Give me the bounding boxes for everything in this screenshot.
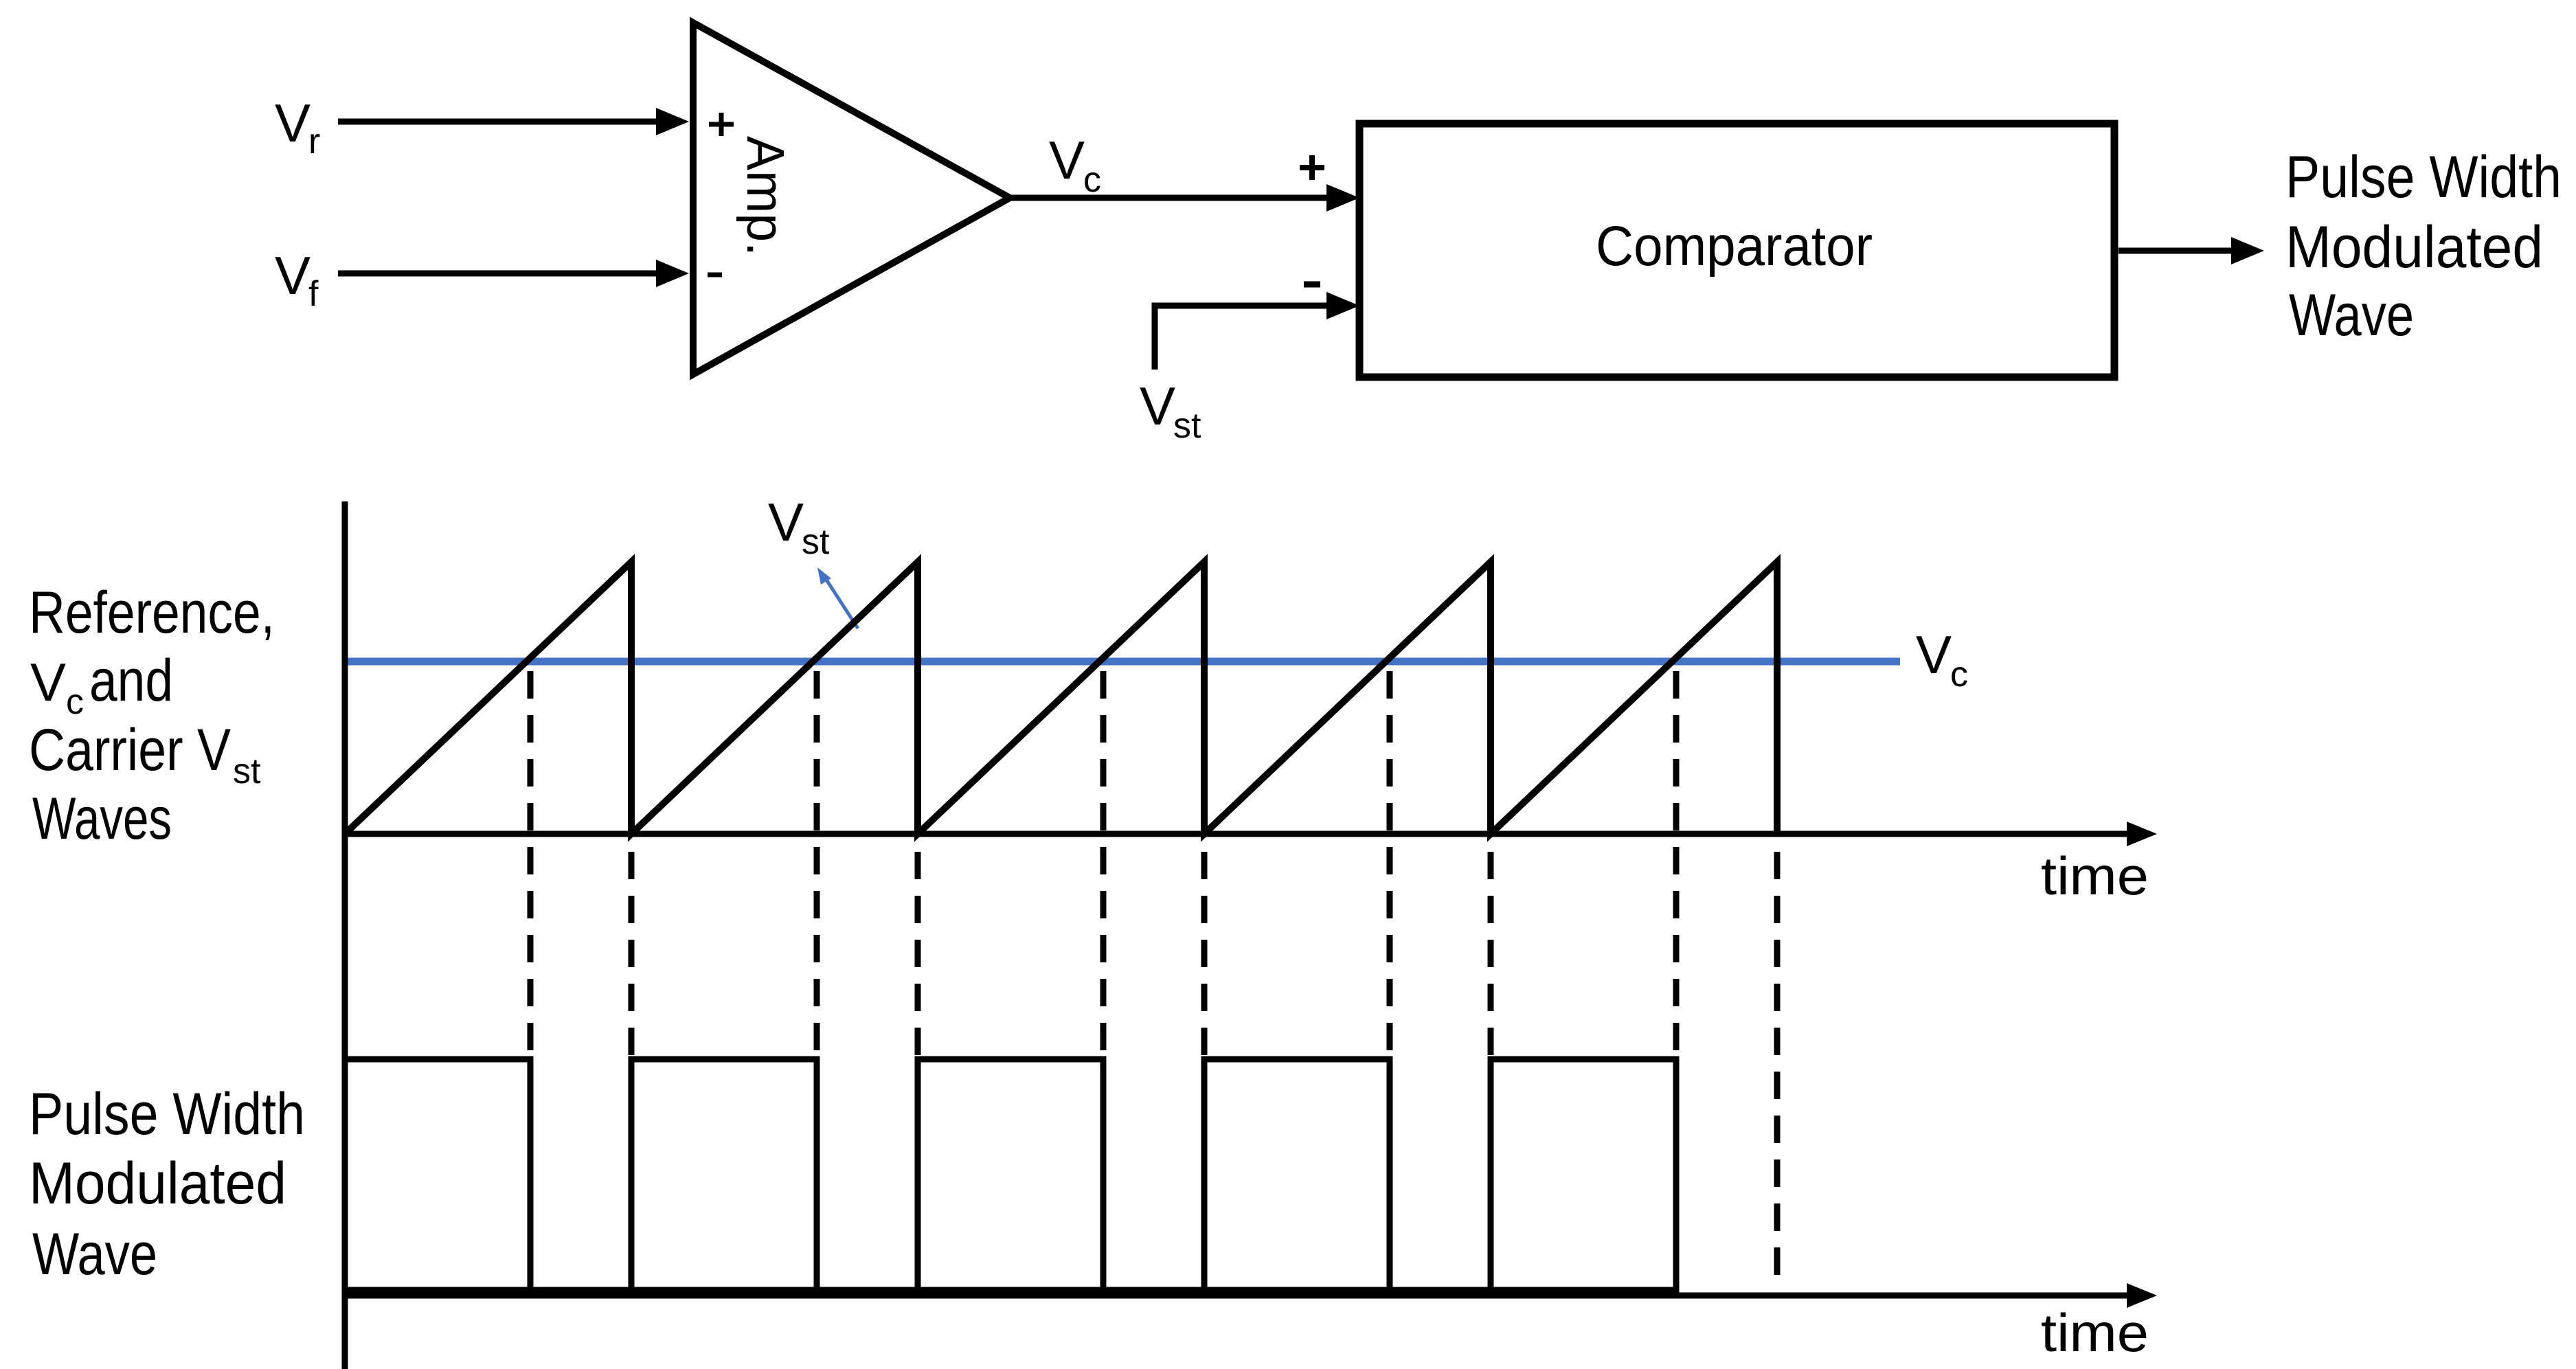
svg-text:Modulated: Modulated	[29, 1151, 286, 1217]
svg-text:Reference,: Reference,	[29, 580, 275, 646]
svg-text:Modulated: Modulated	[2285, 214, 2543, 280]
dashed reset line 3	[1201, 834, 1208, 1059]
PWM pulse 5	[1491, 1059, 1676, 1296]
svg-text:Vc: Vc	[1916, 624, 1968, 694]
svg-text:Waves: Waves	[32, 786, 172, 852]
svg-text:Vcand: Vcand	[30, 648, 173, 722]
svg-text:time: time	[2041, 846, 2149, 906]
svg-text:Pulse Width: Pulse Width	[29, 1081, 305, 1147]
PWM pulse 4	[1204, 1059, 1390, 1296]
dashed reset line 4	[1488, 834, 1494, 1059]
graph1 axis label Reference, Vc and Carrier Vst Waves	[29, 580, 275, 852]
pin - of comparator	[1304, 282, 1320, 288]
node Vc level line (blue)	[345, 658, 1900, 666]
wire Vst pointer arrow (blue)	[817, 567, 858, 629]
wire Vr input arrow	[338, 108, 689, 135]
svg-text:Vf: Vf	[275, 245, 319, 314]
dashed reset line 1	[629, 834, 635, 1059]
svg-text:Wave: Wave	[32, 1221, 157, 1287]
svg-text:time: time	[2041, 1302, 2149, 1363]
svg-text:Vst: Vst	[1140, 376, 1201, 446]
svg-text:Carrier Vst: Carrier Vst	[29, 717, 261, 791]
wire Vf input arrow	[338, 260, 689, 287]
PWM pulse 3	[918, 1059, 1103, 1296]
pin + of comparator	[1300, 155, 1324, 180]
output label Pulse Width Modulated Wave	[2285, 144, 2562, 348]
svg-text:Vc: Vc	[1049, 130, 1101, 200]
dashed reset line 2	[915, 834, 921, 1059]
graph1 y-axis	[342, 501, 348, 1369]
graph2 x-axis	[342, 1283, 2157, 1308]
svg-text:Amp.: Amp.	[736, 136, 795, 256]
svg-text:Vst: Vst	[768, 492, 830, 562]
dashed crossing line 4	[1387, 661, 1393, 1059]
PWM pulse 2	[631, 1059, 817, 1296]
op-amp U1 Amp. triangle	[693, 23, 1010, 374]
wire Vst input to comparator	[1155, 292, 1359, 370]
svg-text:Wave: Wave	[2289, 282, 2414, 348]
dashed crossing line 5	[1673, 661, 1680, 1059]
svg-text:Pulse Width: Pulse Width	[2285, 144, 2562, 210]
pin + of op-amp	[709, 113, 734, 136]
wire output of comparator	[2119, 237, 2264, 264]
dashed crossing line 3	[1100, 661, 1107, 1059]
dashed crossing line 2	[814, 661, 820, 1059]
comparator U2 box	[1359, 124, 2114, 377]
dashed crossing line 1	[528, 661, 534, 1059]
carrier Vst sawtooth wave	[345, 562, 1777, 834]
dashed reset line 5 (long)	[1774, 834, 1781, 1287]
svg-text:Comparator: Comparator	[1596, 215, 1873, 278]
pin - of op-amp	[708, 273, 722, 278]
graph2 axis label Pulse Width Modulated Wave	[29, 1081, 305, 1287]
graph1 x-axis	[342, 822, 2157, 846]
svg-text:Vr: Vr	[275, 93, 320, 161]
wire Vc from op-amp to comparator	[1006, 184, 1359, 212]
PWM low level line	[345, 1287, 1676, 1293]
PWM pulse 1	[345, 1059, 530, 1296]
